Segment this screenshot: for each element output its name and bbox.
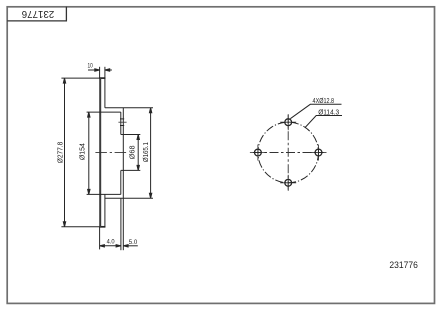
svg-text:231776: 231776	[21, 8, 54, 19]
ext line pair bottom right	[122, 198, 124, 250]
ext line pair bottom left	[120, 198, 122, 250]
bolt hole edge upper	[120, 118, 124, 120]
dia154 bottom edge + ext	[87, 193, 121, 195]
disc right face lower	[104, 194, 106, 226]
dim dia165.1	[149, 108, 151, 199]
vertical centreline	[287, 115, 289, 191]
dim 4.0	[100, 245, 121, 247]
svg-text:231776: 231776	[389, 260, 418, 271]
bolt hole top	[280, 114, 296, 130]
dim dia277.8	[63, 78, 65, 227]
mount plate inner face upper	[120, 112, 122, 134]
title block box (top-left)	[7, 7, 66, 21]
bolt hole bottom	[280, 175, 296, 191]
bolt hole centreline in section	[118, 121, 126, 123]
dia154 top edge + ext	[87, 111, 121, 113]
bolt hole right	[311, 145, 327, 161]
bolt circle dia114.3	[258, 122, 319, 183]
svg-text:5.0: 5.0	[129, 239, 138, 246]
disc left face (thick)	[99, 78, 101, 227]
disc top edge + ext line	[61, 77, 105, 79]
dim 10 ext left	[99, 67, 101, 79]
dia68 hole top edge + ext	[121, 134, 141, 136]
svg-text:Ø114.3: Ø114.3	[318, 109, 339, 116]
section centreline	[95, 152, 126, 154]
dim dia68	[137, 135, 139, 171]
bolt hole edge lower	[120, 125, 124, 127]
disc bottom edge thick segment	[99, 226, 105, 228]
mount plate outer face	[122, 108, 124, 199]
dim 10	[88, 69, 112, 71]
dim dia154	[88, 112, 90, 194]
disc top edge thick segment	[99, 77, 105, 79]
svg-text:Ø68: Ø68	[127, 145, 136, 159]
horizontal centreline	[253, 152, 324, 154]
leader 4X dia12.8	[290, 104, 341, 118]
disc right face upper	[104, 78, 106, 108]
disc bottom edge + ext line	[61, 226, 105, 228]
hat top outer surface + dia165.1 ext	[105, 107, 153, 109]
svg-text:4XØ12.8: 4XØ12.8	[313, 98, 335, 105]
bolt hole left	[250, 145, 266, 161]
dim 5.0	[123, 245, 138, 247]
svg-text:10: 10	[87, 63, 93, 70]
svg-text:4.0: 4.0	[107, 239, 115, 246]
svg-text:Ø277.8: Ø277.8	[55, 142, 64, 164]
ext line 4.0 left	[99, 227, 101, 250]
svg-text:Ø154: Ø154	[78, 143, 87, 160]
svg-text:Ø165.1: Ø165.1	[141, 142, 150, 162]
dia68 hole bottom edge + ext	[121, 169, 141, 171]
leader dia114.3	[305, 116, 342, 128]
hat bottom outer surface + dia165.1 ext	[105, 197, 153, 199]
dim 10 ext right	[104, 67, 106, 79]
mount plate inner face lower	[120, 170, 122, 194]
